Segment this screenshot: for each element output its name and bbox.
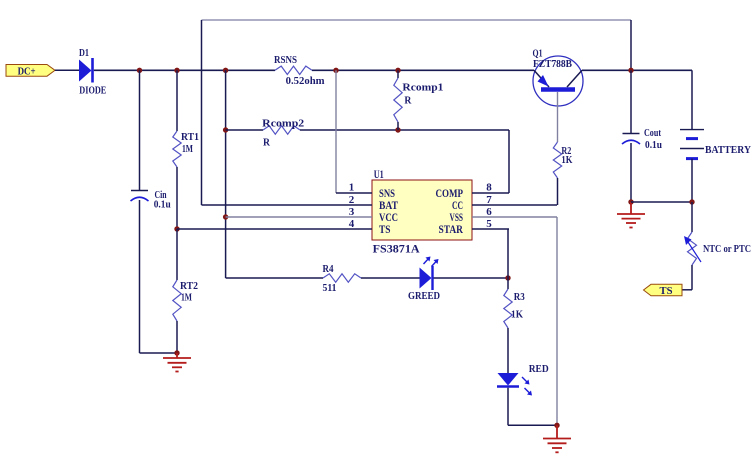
- svg-text:1K: 1K: [561, 154, 572, 166]
- svg-text:0.1u: 0.1u: [645, 139, 662, 151]
- wire pin 3 VCC gray: [226, 216, 372, 218]
- capacitor Cin: [131, 191, 149, 202]
- wire SNS net vertical: [335, 70, 337, 193]
- resistor Rcomp1: [394, 78, 402, 122]
- junction ground right: [628, 199, 633, 204]
- svg-text:NTC or PTC: NTC or PTC: [703, 243, 751, 255]
- svg-text:FS3871A: FS3871A: [373, 242, 420, 256]
- svg-text:1M: 1M: [182, 143, 193, 155]
- wire pin 7 CC: [472, 204, 557, 206]
- ground left: [163, 353, 191, 372]
- wire top rail drop: [630, 20, 632, 70]
- wire Cin bottom: [139, 200, 141, 353]
- wire R2 to CC: [557, 178, 559, 205]
- port TS: [644, 284, 683, 297]
- junction Rcomp2 tee: [223, 127, 228, 132]
- svg-text:U1: U1: [374, 167, 384, 181]
- junction TS node: [174, 226, 179, 231]
- svg-text:R: R: [404, 95, 412, 107]
- wire RED bottom: [507, 388, 509, 426]
- resistor Rcomp2: [263, 126, 300, 134]
- svg-text:FZT788B: FZT788B: [533, 58, 573, 70]
- capacitor Cout: [622, 134, 640, 145]
- svg-text:2: 2: [349, 194, 355, 206]
- wire R4 left: [226, 277, 323, 279]
- wire top rail: [202, 19, 632, 21]
- wire battery bottom: [691, 159, 693, 202]
- wire collector to battery: [582, 69, 692, 71]
- svg-text:4: 4: [349, 218, 355, 230]
- svg-text:RED: RED: [529, 363, 549, 375]
- svg-text:R3: R3: [514, 291, 525, 303]
- wire to TS port: [682, 289, 692, 291]
- junction node branch: [223, 68, 228, 73]
- junction battery node: [628, 68, 633, 73]
- svg-text:1K: 1K: [511, 309, 523, 321]
- wire pin 8 COMP: [472, 192, 509, 194]
- IC U1 FS3871A: [372, 180, 472, 240]
- resistor R3: [504, 289, 512, 328]
- svg-text:TS: TS: [660, 285, 673, 297]
- wire Cout top: [630, 70, 632, 133]
- svg-text:3: 3: [349, 206, 355, 218]
- diode D1: [79, 58, 93, 83]
- resistor RT1: [173, 131, 181, 167]
- wire rail to Q1: [312, 69, 534, 71]
- ground mid: [617, 202, 645, 228]
- wire Cout bottom: [630, 143, 632, 202]
- wire RT2 bottom: [176, 321, 178, 353]
- wire main rail: [94, 69, 275, 71]
- svg-text:TS: TS: [379, 222, 391, 236]
- wire VSS vertical: [556, 217, 558, 425]
- svg-text:1: 1: [349, 182, 355, 194]
- resistor R4: [323, 274, 361, 282]
- LED GREED: [420, 257, 439, 291]
- wire ground link: [631, 201, 692, 203]
- svg-text:DC+: DC+: [18, 66, 36, 78]
- wire COMP net: [300, 129, 509, 131]
- svg-text:Cout: Cout: [644, 127, 661, 139]
- junction Cin tap: [137, 68, 142, 73]
- svg-text:5: 5: [486, 218, 492, 230]
- svg-text:R: R: [263, 137, 271, 149]
- svg-text:RT2: RT2: [180, 280, 198, 292]
- svg-text:1M: 1M: [181, 292, 192, 304]
- wire Rcomp2 left: [226, 129, 263, 131]
- junction RT1 tap: [174, 68, 179, 73]
- junction ground node: [174, 350, 179, 355]
- wire COMP drop: [508, 130, 510, 193]
- wire STAR vertical: [507, 229, 509, 278]
- wire pin 4 TS: [177, 228, 372, 230]
- svg-text:GREED: GREED: [408, 290, 440, 302]
- junction Rcomp1 bottom: [395, 127, 400, 132]
- junction NTC node: [689, 199, 694, 204]
- svg-text:R4: R4: [323, 263, 334, 275]
- ground bottom: [543, 425, 571, 452]
- wire pin 1 SNS: [336, 192, 372, 194]
- wire Rcomp1 bottom: [397, 122, 399, 130]
- wire BAT vertical: [201, 20, 203, 205]
- wire R3 to RED: [507, 328, 509, 373]
- wire Cin top: [139, 70, 141, 190]
- battery BATTERY: [680, 130, 704, 159]
- wire NTC top: [691, 202, 693, 232]
- svg-text:STAR: STAR: [439, 222, 464, 236]
- wire LED to STAR node: [434, 277, 509, 279]
- svg-text:0.1u: 0.1u: [154, 199, 171, 211]
- resistor RSNS: [275, 66, 312, 74]
- wire NTC bottom: [691, 265, 693, 290]
- junction ground3 node: [554, 423, 559, 428]
- svg-text:RSNS: RSNS: [274, 54, 297, 66]
- wire branch vertical: [225, 70, 227, 278]
- junction STAR node: [505, 275, 510, 280]
- svg-text:0.52ohm: 0.52ohm: [286, 75, 325, 87]
- LED RED: [497, 373, 532, 396]
- resistor RT2: [173, 280, 181, 321]
- wire pin 5 STAR: [472, 228, 509, 230]
- junction VCC tee: [223, 214, 228, 219]
- svg-text:511: 511: [323, 282, 337, 294]
- port DC+: [6, 65, 55, 78]
- junction Rcomp1 tap: [395, 68, 400, 73]
- wire RT1 top: [176, 70, 178, 131]
- svg-text:Rcomp2: Rcomp2: [262, 118, 305, 130]
- transistor Q1: [533, 56, 583, 106]
- svg-text:6: 6: [486, 206, 492, 218]
- svg-text:Rcomp1: Rcomp1: [402, 82, 443, 94]
- wire R4 to LED: [361, 277, 420, 279]
- wire battery top: [691, 70, 693, 129]
- wire Rcomp1 top: [397, 70, 399, 78]
- junction SNS tap: [333, 68, 338, 73]
- svg-text:DIODE: DIODE: [79, 85, 106, 97]
- wire to ground node: [140, 352, 178, 354]
- svg-text:8: 8: [486, 182, 492, 194]
- svg-text:BATTERY: BATTERY: [705, 144, 751, 156]
- wire RT2 top: [176, 229, 178, 280]
- wire pin 6 VSS gray: [472, 216, 557, 218]
- wire RT1 bottom: [176, 167, 178, 229]
- thermistor NTC: [684, 232, 701, 265]
- wire: [55, 69, 79, 71]
- wire Q1 base: [557, 92, 559, 142]
- resistor R2: [553, 142, 561, 178]
- svg-text:D1: D1: [79, 47, 89, 59]
- wire to ground3: [508, 424, 557, 426]
- svg-text:RT1: RT1: [181, 131, 199, 143]
- svg-text:7: 7: [486, 194, 492, 206]
- wire pin 2 BAT: [202, 204, 373, 206]
- wire R3 top: [507, 278, 509, 289]
